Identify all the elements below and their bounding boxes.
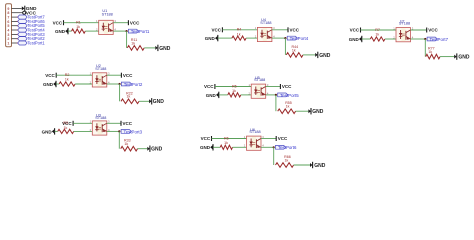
wire GND to resistor R4: [218, 37, 232, 39]
svg-text:R3: R3: [63, 121, 68, 125]
junction node TestPort7: [424, 38, 426, 40]
wire resistor R44 to GND: [303, 54, 315, 56]
svg-text:1k: 1k: [237, 32, 241, 36]
resistor R3 1k: [58, 121, 74, 133]
wire U7 pin3 to VCC: [411, 29, 427, 31]
svg-text:VCC: VCC: [130, 20, 140, 25]
power port GND (U6 LED side): [200, 144, 213, 150]
port TestPort3: [121, 129, 143, 134]
wire U3 pin3 to VCC: [107, 122, 121, 124]
connector pin 1: [7, 41, 17, 45]
power port VCC (pin 8): [23, 10, 37, 16]
resistor R55 1k: [278, 101, 296, 113]
power port VCC (U6 LED side): [201, 136, 212, 141]
svg-text:ST188: ST188: [249, 130, 260, 134]
port TestPort6: [276, 145, 298, 150]
svg-text:VCC: VCC: [428, 28, 438, 33]
svg-text:ST188: ST188: [102, 12, 113, 16]
power port GND (below R22): [149, 98, 164, 105]
junction node TestPort1: [126, 30, 128, 32]
svg-text:R5: R5: [232, 84, 237, 88]
svg-text:R7: R7: [375, 28, 380, 32]
svg-text:GND: GND: [159, 46, 171, 52]
wire U7 pin4 to node TestPort7: [411, 38, 426, 40]
power port GND (pin 9): [22, 6, 37, 12]
svg-text:GND: GND: [206, 93, 217, 98]
svg-text:ST188: ST188: [399, 22, 410, 26]
svg-text:GND: GND: [458, 55, 470, 61]
svg-text:GND: GND: [55, 29, 66, 34]
wire VCC to U3 pin1: [73, 122, 92, 124]
wire GND to resistor R2: [56, 83, 59, 85]
wire U4 pin4 to node TestPort4: [272, 37, 286, 39]
svg-text:GND: GND: [319, 53, 331, 59]
svg-text:VCC: VCC: [201, 136, 211, 141]
power port VCC (U2 collector): [121, 73, 133, 78]
resistor R5 1k: [228, 84, 241, 97]
svg-text:R4: R4: [237, 28, 242, 32]
power port GND (below R66): [310, 162, 326, 169]
wire VCC to U4 pin1: [222, 29, 257, 31]
svg-text:TestPort1: TestPort1: [27, 41, 45, 46]
port TestPort4 (connector): [18, 28, 46, 33]
svg-text:1k: 1k: [124, 142, 128, 146]
wire U6 pin3 to VCC: [261, 138, 276, 140]
svg-text:1k: 1k: [292, 48, 296, 52]
op-amp U3 ST188 optocoupler: [90, 113, 110, 135]
connector pin 2: [7, 37, 17, 41]
wire node TestPort1 down to resistor R11: [126, 31, 128, 48]
power port GND (below R77): [454, 53, 470, 60]
op-amp U1 ST188 optocoupler: [96, 9, 116, 35]
svg-text:VCC: VCC: [45, 73, 55, 78]
wire GND to resistor R3: [55, 130, 58, 132]
svg-text:1k: 1k: [131, 41, 135, 45]
resistor R66 1k: [276, 155, 294, 167]
svg-text:R6: R6: [224, 136, 229, 140]
port TestPort7 (connector): [18, 15, 46, 20]
power port VCC (U3 collector): [121, 121, 133, 126]
wire resistor R33 to GND: [138, 148, 148, 150]
svg-text:1k: 1k: [64, 126, 68, 130]
power port GND (below R33): [147, 146, 162, 153]
op-amp U7 ST188 optocoupler: [393, 19, 413, 41]
svg-text:VCC: VCC: [123, 73, 133, 78]
connector pin 7: [7, 15, 17, 19]
svg-text:TestPort1: TestPort1: [131, 29, 150, 34]
svg-text:GND: GND: [42, 129, 53, 134]
svg-text:1k: 1k: [127, 95, 131, 99]
wire node TestPort5 down to resistor R55: [275, 95, 277, 111]
wire VCC to U6 pin1: [212, 138, 247, 140]
wire VCC to U5 pin1: [215, 86, 251, 88]
svg-text:VCC: VCC: [53, 20, 63, 25]
power port VCC (U4 LED side): [211, 27, 222, 32]
svg-text:TestPort5: TestPort5: [280, 93, 299, 98]
resistor R77 1k: [426, 47, 440, 59]
junction node TestPort5: [275, 94, 277, 96]
resistor R1 1k: [72, 21, 86, 34]
power port VCC (U5 collector): [280, 84, 292, 89]
svg-text:1k: 1k: [286, 105, 290, 109]
connector pin 8: [7, 11, 22, 15]
port TestPort5: [278, 93, 300, 98]
wire node TestPort3 down to resistor R33: [118, 131, 120, 148]
wire resistor R6 to U6 pin2: [233, 146, 247, 148]
svg-text:VCC: VCC: [290, 28, 300, 33]
wire node TestPort7 down to resistor R77: [424, 39, 426, 57]
svg-text:GND: GND: [205, 36, 216, 41]
wire node TestPort4 down to resistor R44: [284, 38, 286, 55]
svg-text:GND: GND: [312, 109, 324, 115]
junction node TestPort4: [284, 37, 286, 39]
svg-text:VCC: VCC: [282, 84, 292, 89]
connector pin 4: [7, 28, 17, 32]
power port VCC (U2 LED side): [45, 73, 56, 78]
resistor R6 1k: [220, 136, 232, 149]
wire resistor R77 to GND: [440, 56, 454, 58]
svg-text:TestPort4: TestPort4: [290, 36, 309, 41]
svg-text:1k: 1k: [428, 50, 432, 54]
connector pin 3: [7, 33, 17, 37]
svg-text:1: 1: [7, 41, 9, 45]
wire U2 pin4 to node TestPort2: [107, 83, 120, 85]
svg-text:1k: 1k: [375, 33, 379, 37]
svg-text:GND: GND: [153, 99, 165, 105]
svg-text:VCC: VCC: [278, 136, 288, 141]
svg-text:GND: GND: [314, 163, 326, 169]
svg-text:1k: 1k: [65, 78, 69, 82]
wire U6 pin4 to node TestPort6: [261, 146, 274, 148]
resistor R44 1k: [286, 45, 303, 57]
power port VCC (U3 LED side): [62, 121, 73, 126]
svg-text:GND: GND: [200, 145, 211, 150]
svg-text:VCC: VCC: [350, 28, 360, 33]
wire U3 pin4 to node TestPort3: [107, 130, 120, 132]
power port GND (U3 LED side): [42, 128, 55, 134]
wire resistor R5 to U5 pin2: [241, 94, 251, 96]
connector J1 body: [6, 4, 12, 47]
wire resistor R55 to GND: [296, 110, 309, 112]
svg-text:TestPort6: TestPort6: [278, 145, 297, 150]
svg-text:R1: R1: [76, 21, 81, 25]
power port GND (U7 LED side): [349, 36, 362, 42]
wire VCC to U7 pin1: [361, 29, 397, 31]
svg-text:R2: R2: [65, 73, 70, 77]
wire node TestPort6 down to resistor R66: [273, 147, 275, 165]
wire VCC to U2 pin1: [56, 74, 92, 76]
op-amp U4 ST188 optocoupler: [255, 18, 275, 42]
svg-text:1k: 1k: [232, 89, 236, 93]
svg-text:ST188: ST188: [260, 21, 271, 25]
wire GND to resistor R7: [362, 38, 370, 40]
wire resistor R3 to U3 pin2: [74, 130, 93, 132]
resistor R11 1k: [127, 38, 144, 50]
port TestPort1 (connector): [18, 41, 46, 46]
svg-text:4: 4: [7, 28, 9, 32]
svg-text:1k: 1k: [224, 141, 228, 145]
power port VCC (U6 collector): [276, 136, 288, 141]
wire node TestPort2 down to resistor R22: [119, 84, 121, 101]
svg-text:ST188: ST188: [95, 67, 106, 71]
power port GND (U5 LED side): [206, 92, 219, 98]
port TestPort7: [427, 37, 449, 42]
svg-text:ST188: ST188: [254, 78, 265, 82]
svg-text:TestPort7: TestPort7: [430, 37, 449, 42]
svg-text:7: 7: [7, 15, 9, 19]
svg-text:VCC: VCC: [123, 121, 133, 126]
resistor R22 1k: [121, 91, 139, 103]
wire resistor R1 to U1 pin2: [85, 30, 98, 32]
connector pin 6: [7, 20, 17, 24]
power port GND (U2 LED side): [43, 81, 56, 87]
op-amp U6 ST188 optocoupler: [244, 128, 264, 151]
wire U4 pin3 to VCC: [272, 29, 288, 31]
wire GND to resistor R6: [213, 146, 220, 148]
wire U1 pin3 to VCC: [113, 22, 128, 24]
power port VCC (U7 LED side): [350, 28, 361, 33]
port TestPort2 (connector): [18, 36, 46, 41]
power port GND (below R11): [155, 45, 170, 52]
power port VCC (U1 collector): [128, 20, 140, 25]
op-amp U5 ST188 optocoupler: [249, 76, 269, 98]
wire resistor R11 to GND: [144, 47, 155, 49]
svg-text:1k: 1k: [76, 25, 80, 29]
port TestPort1: [128, 29, 150, 34]
wire resistor R2 to U2 pin2: [75, 83, 92, 85]
power port GND (U4 LED side): [205, 35, 218, 41]
svg-text:1k: 1k: [285, 158, 289, 162]
op-amp U2 ST188 optocoupler: [90, 64, 110, 87]
power port VCC (U1 LED side): [53, 20, 64, 25]
wire resistor R66 to GND: [294, 164, 310, 166]
power port VCC (U7 collector): [427, 28, 439, 33]
power port GND (U1 LED side): [55, 28, 68, 34]
port TestPort4: [287, 36, 309, 41]
wire GND to resistor R1: [68, 30, 71, 32]
port TestPort6 (connector): [18, 19, 46, 24]
svg-text:ST188: ST188: [95, 116, 106, 120]
resistor R4 1k: [232, 28, 246, 41]
resistor R33 1k: [121, 139, 138, 151]
wire VCC to U1 pin1: [64, 22, 99, 24]
junction node TestPort6: [273, 146, 275, 148]
resistor R2 1k: [59, 73, 75, 86]
port TestPort5 (connector): [18, 23, 46, 28]
svg-text:TestPort3: TestPort3: [124, 129, 143, 134]
svg-text:GND: GND: [151, 147, 163, 153]
power port GND (below R55): [308, 108, 323, 115]
svg-text:GND: GND: [43, 82, 54, 87]
svg-text:GND: GND: [349, 37, 360, 42]
wire resistor R7 to U7 pin2: [385, 38, 396, 40]
wire resistor R22 to GND: [139, 100, 149, 102]
connector pin 5: [7, 24, 17, 28]
power port VCC (U4 collector): [288, 27, 300, 32]
wire U5 pin3 to VCC: [266, 86, 281, 88]
port TestPort2: [121, 82, 143, 87]
power port GND (below R44): [315, 52, 331, 59]
resistor R7 1k: [370, 28, 385, 41]
wire U5 pin4 to node TestPort5: [266, 94, 276, 96]
svg-text:VCC: VCC: [211, 28, 221, 33]
svg-text:TestPort2: TestPort2: [124, 82, 143, 87]
svg-text:VCC: VCC: [204, 84, 214, 89]
wire GND to resistor R5: [219, 94, 228, 96]
wire U1 pin4 to node TestPort1: [113, 30, 126, 32]
junction node TestPort2: [119, 83, 121, 85]
wire U2 pin3 to VCC: [107, 74, 122, 76]
wire resistor R4 to U4 pin2: [246, 37, 257, 39]
port TestPort3 (connector): [18, 32, 46, 37]
junction node TestPort3: [118, 130, 120, 132]
connector pin 9: [7, 7, 21, 11]
power port VCC (U5 LED side): [204, 84, 215, 89]
